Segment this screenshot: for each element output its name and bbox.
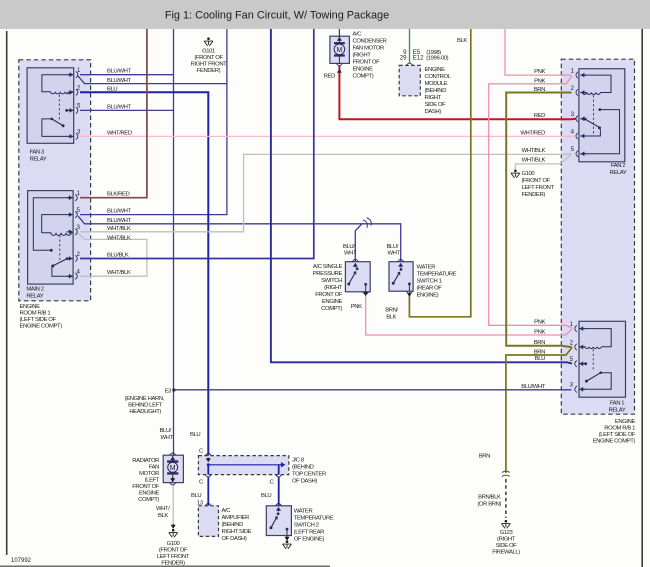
pin 2 FAN3 [67,89,78,95]
svg-text:A/C SINGLE: A/C SINGLE [313,264,343,270]
svg-text:SWITCH 2: SWITCH 2 [294,523,319,529]
wire GRN: header down to ECM pin [409,29,411,63]
relay box: ENGINE ROOM R/B 1 (left, contains FAN 3 + MAIN 2 relays) [19,60,91,301]
pin 3 FAN1 [575,386,586,392]
relay FAN2 coil [580,75,611,94]
svg-text:BLU/WHT: BLU/WHT [107,78,132,84]
wire BLU/WHT riser: header to E3 to radiator fan motor [173,29,175,455]
svg-text:RIGHT SIDE: RIGHT SIDE [222,529,252,535]
pin 5 MAIN2 [67,211,78,217]
wire BLU/WHT: FAN3 pin1 second wire to vertical x=227 [78,76,227,84]
relay MAIN 2 inner box [28,191,74,285]
wire PNK: FAN2 pin1 left and up to header [505,29,572,75]
svg-text:BLK: BLK [158,513,168,519]
title header bar [0,0,650,29]
pin 5 FAN2 [576,151,587,157]
svg-text:RED: RED [534,113,545,119]
svg-text:A/C: A/C [353,32,363,38]
svg-text:M: M [336,47,342,54]
svg-text:BLK/RED: BLK/RED [107,192,130,198]
svg-text:(FRONT OF: (FRONT OF [194,55,223,61]
module U2: A/C amplifier box [198,506,218,537]
svg-text:SWITCH: SWITCH [321,278,342,284]
svg-text:BLU: BLU [535,356,545,362]
svg-text:BLU/: BLU/ [160,428,172,434]
svg-text:FENDER): FENDER) [197,68,221,74]
svg-text:WHT: WHT [388,251,401,257]
svg-text:FAN: FAN [149,465,159,471]
svg-text:(OR BRN): (OR BRN) [477,502,501,508]
svg-text:CONTROL: CONTROL [425,74,452,80]
svg-text:(1999-00): (1999-00) [426,56,448,62]
svg-text:PNK: PNK [534,319,545,325]
wire WHT/BLK: FAN2 pin5 to ground G100 [515,155,571,169]
relay FAN 2 inner box [579,69,625,162]
svg-text:ENGINE: ENGINE [20,304,41,310]
wire BLU: FAN3 pin2 right then down to J/C8 [80,92,208,455]
svg-text:WHT/BLK: WHT/BLK [107,270,131,276]
svg-text:BLU/WHT: BLU/WHT [107,69,132,75]
splice branch to A/C pressure switch [355,224,362,262]
svg-text:BLU/: BLU/ [343,244,355,250]
svg-text:(LEFT: (LEFT [145,478,160,484]
wire WHT/BLK: radiator fan motor to ground G100 [172,483,174,527]
svg-text:BLU/WHT: BLU/WHT [107,105,132,111]
svg-text:(RIGHT: (RIGHT [324,285,343,291]
relay FAN1 pin5 contact [579,363,585,365]
pin 4 FAN2 [576,133,587,139]
wire BLU/WHT vertical: header down to MAIN2 pin5 [80,29,227,215]
svg-text:(LEFT SIDE OF: (LEFT SIDE OF [599,432,636,438]
svg-text:ENGINE: ENGINE [615,419,636,425]
svg-text:OF ENGINE): OF ENGINE) [294,537,325,543]
relay FAN3 pin5 contact [68,109,74,111]
svg-text:BRN/: BRN/ [385,308,398,314]
ground G123 [502,520,511,529]
wire PNK: A/C pressure switch to FAN1 pin1 [366,296,572,335]
junction block J/C 8 box [198,456,288,475]
svg-text:(ENGINE HARN,: (ENGINE HARN, [125,396,165,402]
(covered above; arrow at exit) [364,292,368,296]
svg-text:TOP CENTER: TOP CENTER [292,472,326,478]
svg-text:FAN 3: FAN 3 [30,150,45,156]
svg-text:(FRONT OF: (FRONT OF [159,548,188,554]
pin 4 MAIN2 [67,273,78,279]
svg-text:ROOM R/B 1: ROOM R/B 1 [20,311,51,317]
svg-text:(BEHIND: (BEHIND [292,465,314,471]
splice symbol on G123 wire [502,471,510,476]
svg-text:BRN: BRN [534,340,545,346]
relay FAN 3 inner box [27,68,74,144]
relay MAIN2 pin2 contact [68,258,73,260]
svg-text:RELAY: RELAY [609,408,626,414]
svg-text:FRONT OF: FRONT OF [353,60,381,66]
svg-text:ENGINE): ENGINE) [417,293,439,299]
relay FAN2 pin4 contact [580,130,600,137]
svg-text:BLU: BLU [191,493,201,499]
relay FAN2 actuator dashed link [592,95,594,134]
ground G100 (right) [511,169,520,178]
svg-text:PNK: PNK [534,69,545,75]
relay MAIN2 coil (pin5 to pin3) [42,215,73,236]
pin 3 MAIN2 [67,229,78,235]
svg-text:DASH): DASH) [425,109,442,115]
svg-text:(RIGHT: (RIGHT [497,537,516,543]
svg-text:G100: G100 [167,541,181,547]
relay FAN1 actuator dashed link [592,349,594,371]
pin 3 FAN2 [576,116,587,122]
svg-text:RIGHT FRONT: RIGHT FRONT [191,62,228,68]
svg-text:FRONT OF: FRONT OF [315,292,343,298]
svg-text:PNK: PNK [351,304,362,310]
svg-text:ROOM R/B 1: ROOM R/B 1 [604,426,635,432]
svg-text:COMPT): COMPT) [353,74,374,80]
svg-text:BRN: BRN [479,454,490,460]
svg-text:RED: RED [324,74,335,80]
svg-text:G123: G123 [500,530,514,536]
svg-text:(LEFT SIDE OF: (LEFT SIDE OF [20,317,57,323]
relay FAN3 switch arm [42,119,74,136]
wire BLK: header down, left to water temp switch 1 [409,29,470,317]
svg-text:BLU/WHT: BLU/WHT [107,218,132,224]
wire PNK: FAN2 pin1 down long vertical to FAN1 pin1 [489,76,572,328]
switch S3: water temperature switch 2 box [266,506,291,536]
pin 2 FAN1 [575,344,586,350]
wire BLU/WHT: FAN3 pin5 to riser [80,109,174,111]
svg-text:FENDER): FENDER) [161,561,185,567]
wire BLK/RED: MAIN2 pin1 right and up to header [80,29,147,198]
svg-text:WHT: WHT [161,435,174,441]
svg-text:MODULE: MODULE [425,81,448,87]
module U1: engine control module box [399,65,420,95]
pin 5 FAN3 [67,107,78,113]
svg-text:BRN: BRN [534,350,545,356]
svg-text:BLU/WHT: BLU/WHT [521,384,546,390]
relay MAIN2 switch arm + pin4 [52,267,73,277]
svg-text:PRESSURE: PRESSURE [313,271,343,277]
wire BRN/BLK (OR BRN): dashed to G123 ground [505,479,507,518]
svg-text:E3: E3 [165,389,173,395]
relay FAN1 switch arm + pin3 [579,373,611,390]
svg-text:BLU: BLU [261,493,271,499]
svg-text:CONDENSER: CONDENSER [353,39,387,45]
svg-text:E12: E12 [413,55,424,62]
wire BRN/BLK: water temp switch 1 exit arrow [408,292,412,296]
svg-text:FENDER): FENDER) [522,192,546,198]
svg-text:SIDE OF: SIDE OF [425,102,447,108]
relay MAIN2 actuator dashed link [59,235,61,262]
switch S3 (water temp switch 2) internals [276,504,282,506]
svg-text:(RIGHT: (RIGHT [353,53,372,59]
svg-text:WHT/RED: WHT/RED [107,131,132,137]
svg-text:(BEHIND: (BEHIND [222,522,244,528]
switch S1 internals [352,259,358,261]
wire stub: condenser motor to header [338,29,340,36]
svg-text:WHT/: WHT/ [156,506,170,512]
svg-text:WHT/RED: WHT/RED [520,130,545,136]
relay FAN3 actuator dashed link [58,95,60,122]
svg-text:MAIN 2: MAIN 2 [26,287,43,293]
svg-text:(FRONT OF: (FRONT OF [522,178,551,184]
svg-text:PNK: PNK [534,330,545,336]
wire BLU/BLK: MAIN2 pin2 right and up to header [80,29,314,259]
wire WHT/BLK loop: MAIN2 pin3 to pin4 [78,233,147,276]
svg-text:BLU/: BLU/ [387,244,399,250]
svg-text:OF DASH): OF DASH) [222,536,247,542]
switch S1: A/C single pressure switch box [345,262,370,292]
wire BLU/WHT: FAN3 pin1 to riser [80,74,174,76]
wire BRN: FAN1 pin2 second wire down to G123 splice [506,348,572,474]
svg-text:G101: G101 [202,49,215,55]
svg-text:G100: G100 [522,171,536,177]
svg-text:WHT/BLK: WHT/BLK [522,148,546,154]
svg-text:M: M [170,465,176,472]
wire BLU: header down to FAN1 pin5 [271,29,572,364]
switch S2: water temperature switch 1 box [389,262,413,292]
svg-text:FRONT OF: FRONT OF [132,484,160,490]
svg-text:BEHIND LEFT: BEHIND LEFT [128,403,163,409]
svg-text:TEMPERATURE: TEMPERATURE [417,272,457,278]
svg-text:LEFT FRONT: LEFT FRONT [522,185,555,191]
svg-text:107992: 107992 [11,558,32,564]
node E3 junction [172,388,175,391]
pin 2 MAIN2 [67,255,78,261]
wire BRN: FAN2 pin2 down to FAN1 pin2 [506,93,572,348]
svg-text:BLK: BLK [386,315,396,321]
relay FAN 1 inner box [579,321,626,397]
svg-text:WHT/BLK: WHT/BLK [107,236,131,242]
svg-text:ENGINE: ENGINE [139,491,160,497]
wire BLU/WHT: MAIN2 pin5 second wire to switches feed [78,216,401,262]
svg-text:MOTOR: MOTOR [139,471,159,477]
right page border [641,29,643,567]
ground G101 (top) [204,37,213,46]
wire WHT/RED: FAN3 pin3 across page to FAN2 pin4 [80,135,576,138]
pin 1 FAN1 [575,325,586,331]
svg-text:RIGHT: RIGHT [425,95,442,101]
svg-text:OF DASH): OF DASH) [292,479,317,485]
svg-text:WHT/BLK: WHT/BLK [522,158,546,164]
motor M1: A/C condenser fan motor box [330,36,350,63]
pin 2 FAN2 [576,89,587,95]
svg-text:FAN 1: FAN 1 [610,401,624,407]
svg-text:ENGINE COMPT): ENGINE COMPT) [593,439,636,445]
svg-text:FAN 2: FAN 2 [611,163,625,169]
svg-text:RADIATOR: RADIATOR [132,458,159,464]
svg-text:29: 29 [400,55,407,62]
svg-text:COMPT): COMPT) [138,497,159,503]
motor M1 (A/C condenser) symbol [334,36,345,63]
svg-text:TEMPERATURE: TEMPERATURE [294,516,334,522]
pin 5 FAN1 [575,361,586,367]
wire RED: condenser motor down then right to FAN2 pin3 [339,66,576,119]
svg-text:WHT: WHT [344,251,357,257]
relay FAN3 coil [42,75,74,94]
svg-text:BLU: BLU [107,87,117,93]
wire BLU: J/C8 to water temp switch 2 [278,477,280,506]
svg-text:SWITCH 1: SWITCH 1 [417,279,442,285]
svg-text:BLK: BLK [457,38,467,44]
svg-text:BLU: BLU [190,432,200,438]
svg-text:WHT/BLK: WHT/BLK [107,226,131,232]
svg-text:ENGINE COMPT): ENGINE COMPT) [20,324,63,330]
svg-text:FIREWALL): FIREWALL) [492,550,520,556]
svg-text:AMPLIFIER: AMPLIFIER [222,515,250,521]
svg-text:RELAY: RELAY [610,170,627,176]
pin 1 MAIN2 [67,195,78,201]
svg-text:BLU/BLK: BLU/BLK [107,253,129,259]
svg-text:HEADLIGHT): HEADLIGHT) [129,409,161,415]
bottom partial border [0,565,330,567]
svg-text:RELAY: RELAY [26,294,43,300]
pin 1 FAN2 [576,72,587,78]
wire BLU/WHT: E3 junction to FAN1 pin3 [174,389,572,391]
svg-text:(BEHIND: (BEHIND [425,88,447,94]
svg-text:BRN/BLK: BRN/BLK [478,495,501,501]
relay FAN2 switch: pin3 pivot and arm [580,118,584,120]
switch S2 internals [398,259,404,261]
motor M2 (radiator fan) symbol [168,455,178,482]
svg-text:J/C 8: J/C 8 [292,458,305,464]
svg-text:(REAR OF: (REAR OF [417,286,443,292]
svg-text:PNK: PNK [534,79,545,85]
relay MAIN2 pin1 to pivot [33,198,73,251]
svg-text:BLU/WHT: BLU/WHT [107,209,132,215]
svg-text:WATER: WATER [294,509,313,515]
svg-text:COMPT): COMPT) [321,306,342,312]
svg-text:SIDE OF: SIDE OF [496,543,518,549]
splice symbol on feed wire [363,217,373,228]
svg-text:WATER: WATER [417,265,436,271]
svg-text:LEFT FRONT: LEFT FRONT [157,554,190,560]
wire BLU: J/C8 to A/C amplifier pin 13 [207,477,209,506]
svg-text:BRN: BRN [534,87,545,93]
svg-text:RELAY: RELAY [30,157,47,163]
relay FAN2 pin5 to upper contact [580,110,619,154]
svg-text:(LEFT REAR: (LEFT REAR [294,530,324,536]
svg-text:A/C: A/C [222,508,232,514]
relay box: ENGINE ROOM R/B 1 (right, contains FAN 2 + FAN 1 relays) [561,59,634,414]
relay FAN1 coil [579,329,611,349]
svg-text:ENGINE: ENGINE [353,67,374,73]
left page border [6,31,8,555]
svg-text:FAN MOTOR: FAN MOTOR [353,46,384,52]
svg-text:Fig 1: Cooling Fan Circuit, W/: Fig 1: Cooling Fan Circuit, W/ Towing Pa… [165,10,389,22]
pin 3 FAN3 [67,133,78,139]
svg-text:ENGINE: ENGINE [425,67,446,73]
wire WHT/BLK: MAIN2 pin3 up riser to FAN2 pin5 [80,154,572,232]
motor M2: radiator fan motor box [163,455,183,482]
svg-text:ENGINE: ENGINE [322,299,343,305]
pin 1 FAN3 [67,72,78,78]
